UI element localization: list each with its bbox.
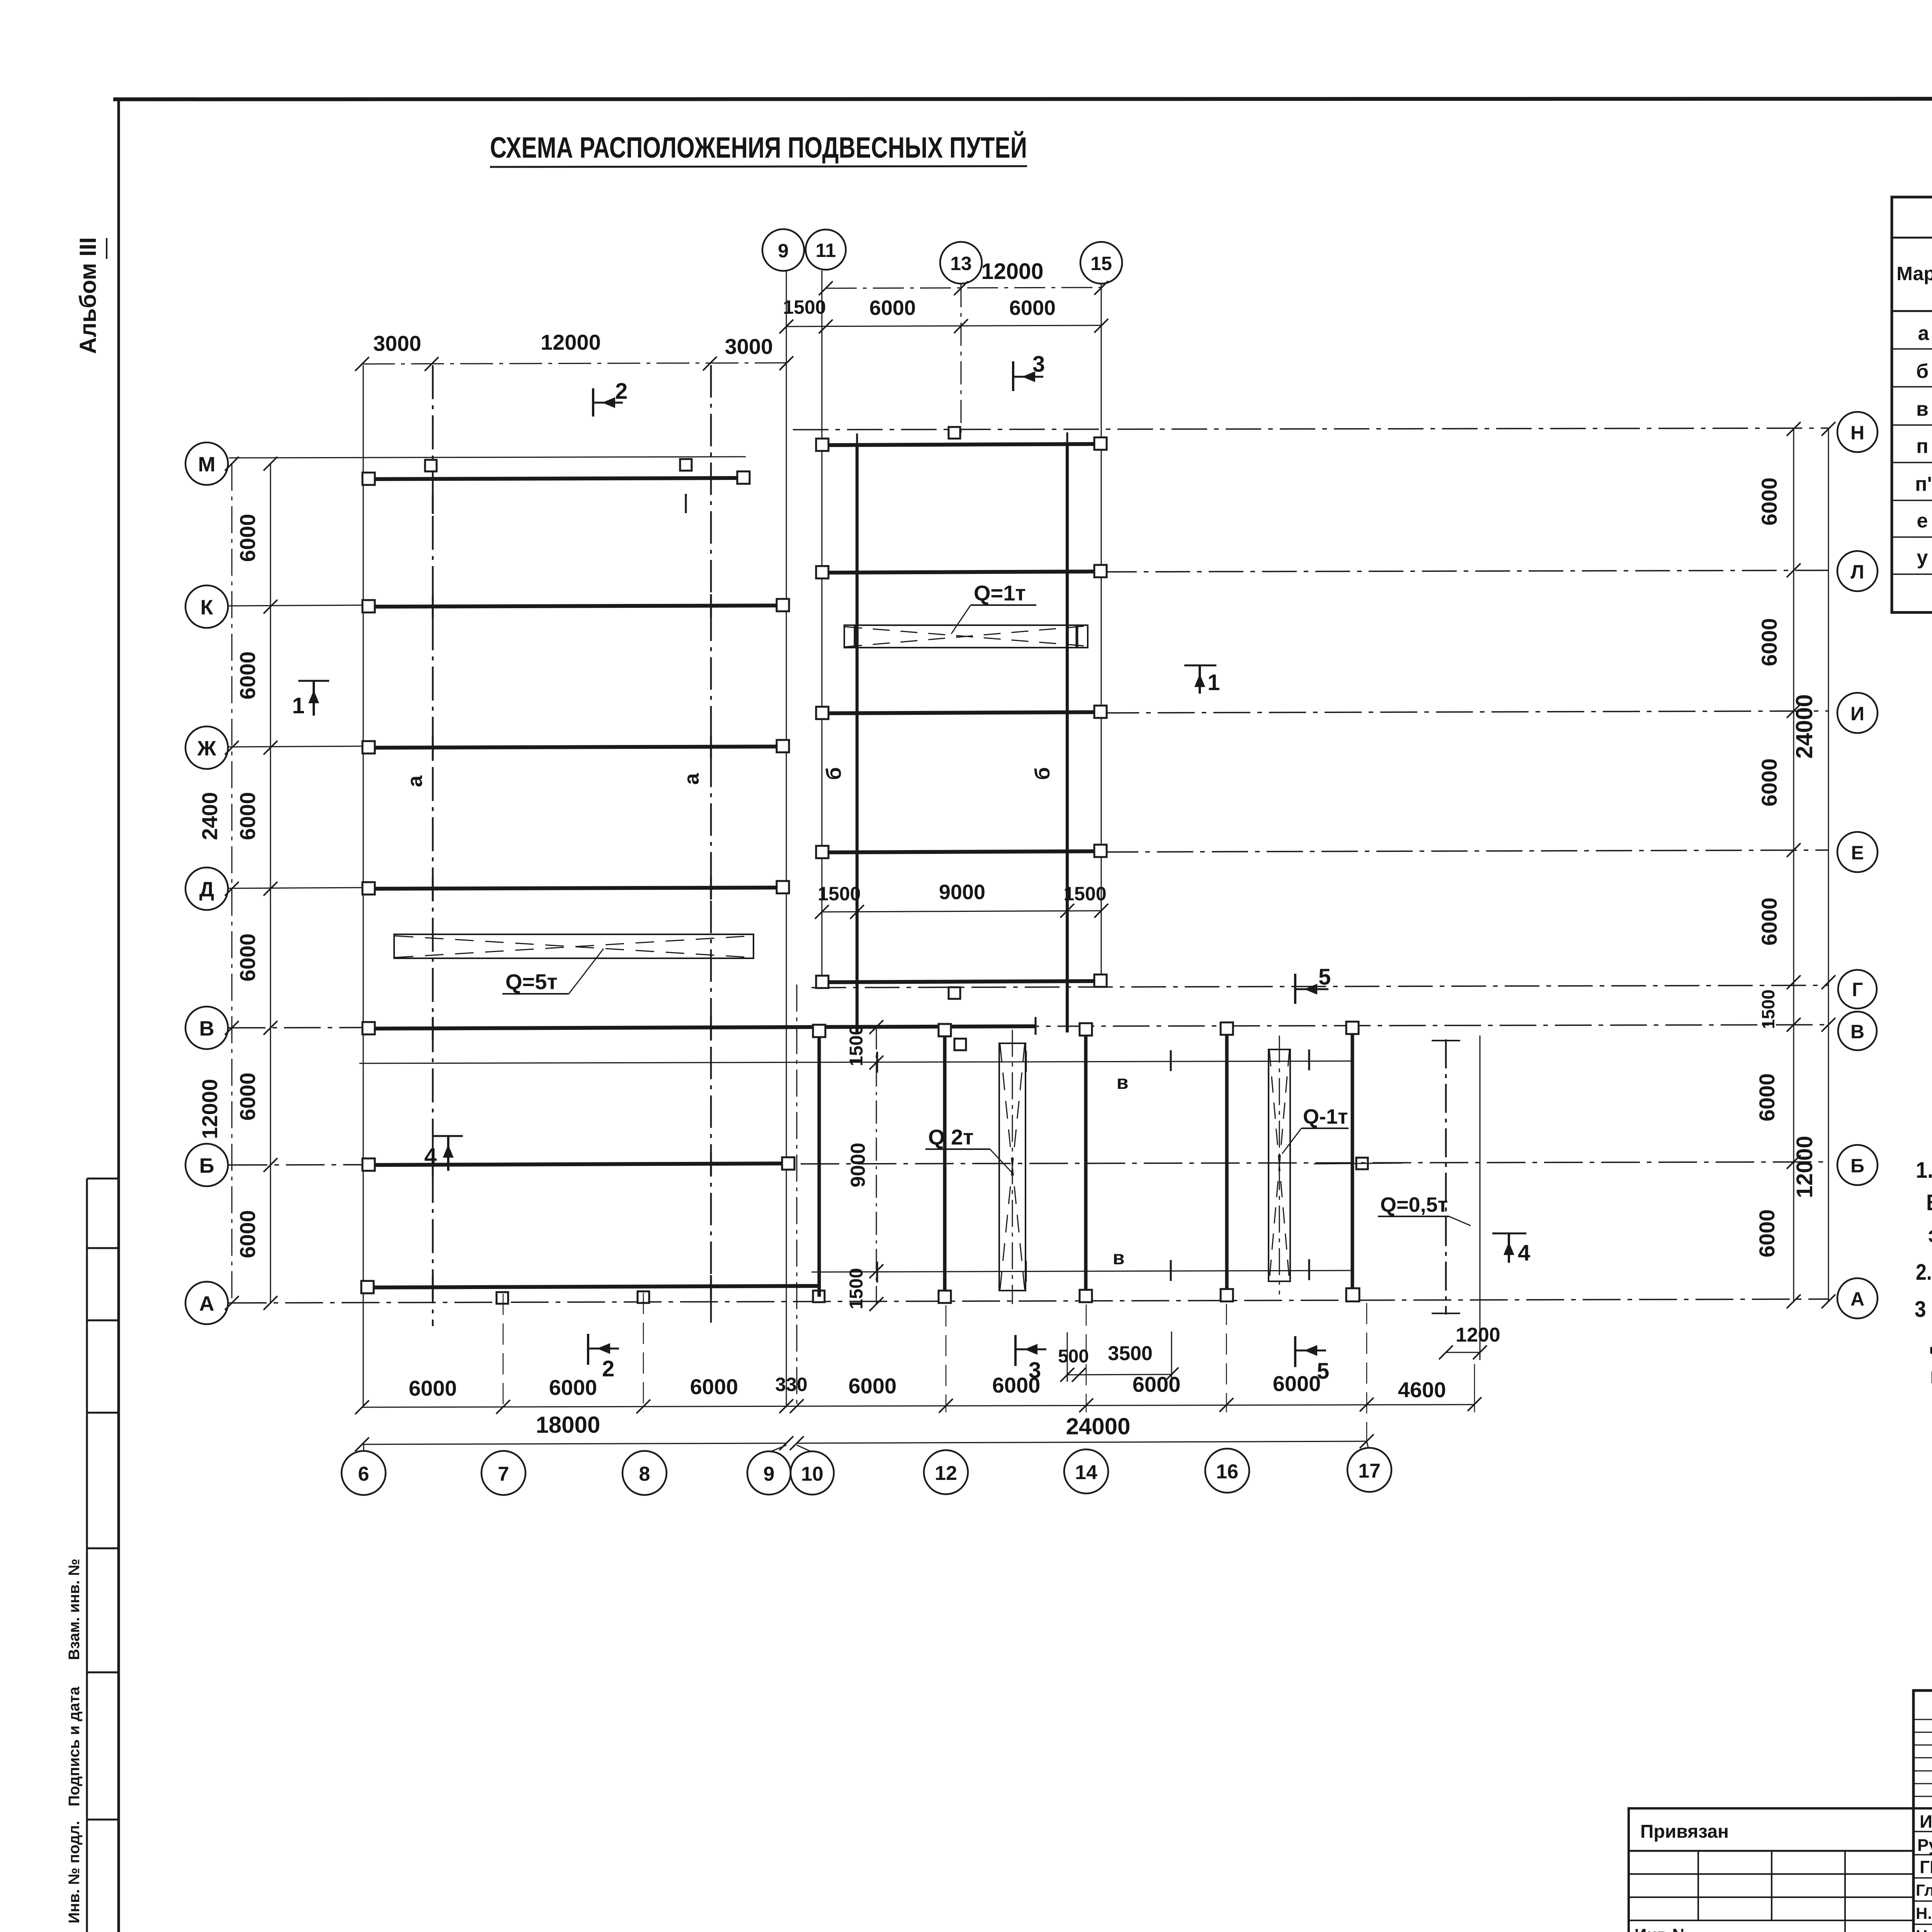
flag 1 right <box>1184 665 1216 694</box>
svg-text:3: 3 <box>1032 352 1045 377</box>
svg-text:4: 4 <box>424 1144 437 1169</box>
svg-text:п: п <box>1916 435 1928 457</box>
svg-text:СХЕМА РАСПОЛОЖЕНИЯ ПОДВЕСНЫХ П: СХЕМА РАСПОЛОЖЕНИЯ ПОДВЕСНЫХ ПУТЕЙ <box>490 131 1027 164</box>
svg-text:3000: 3000 <box>725 334 773 359</box>
flag 3 top <box>1013 361 1043 391</box>
svg-text:элементов - сталь марки Вст3: элементов - сталь марки Вст3кп2 по ГОСТ … <box>1928 1222 1932 1247</box>
svg-text:3000: 3000 <box>373 331 422 355</box>
crane Q=5т <box>394 934 753 994</box>
svg-text:в: в <box>1916 398 1929 420</box>
circle К <box>185 585 228 628</box>
table outer box <box>1892 197 1932 612</box>
rail в lower <box>811 1270 1352 1272</box>
svg-text:6000: 6000 <box>1757 759 1781 807</box>
svg-text:18000: 18000 <box>536 1412 600 1438</box>
svg-text:17: 17 <box>1358 1460 1381 1482</box>
svg-text:б: б <box>1031 767 1054 780</box>
svg-text:а: а <box>403 775 427 787</box>
flag 3 bottom <box>1015 1335 1046 1366</box>
flag 5 bottom <box>1295 1336 1326 1367</box>
svg-text:в: в <box>1113 1247 1125 1269</box>
svg-text:1: 1 <box>292 693 304 718</box>
svg-text:Инж.: Инж. <box>1920 1811 1932 1832</box>
axis Б long dash-dot <box>229 1162 1828 1165</box>
small rows top-left of stamp <box>1913 1719 1932 1720</box>
grid 11 line <box>821 270 823 988</box>
circle Д <box>185 867 228 910</box>
beam row М <box>369 478 744 479</box>
svg-text:Инв. № подл.: Инв. № подл. <box>66 1821 83 1923</box>
axis К stub <box>229 605 368 606</box>
svg-text:8: 8 <box>639 1463 650 1485</box>
svg-text:Н: Н <box>1850 422 1864 444</box>
staff rows <box>1913 1831 1932 1832</box>
svg-text:Л: Л <box>1850 561 1864 583</box>
svg-text:12000: 12000 <box>981 259 1043 284</box>
svg-text:М: М <box>198 453 216 476</box>
svg-text:6000: 6000 <box>869 296 916 320</box>
sheet left frame <box>117 98 120 1932</box>
svg-text:11: 11 <box>816 240 836 261</box>
svg-text:6000: 6000 <box>1757 898 1781 946</box>
grid 10 dash-dot <box>796 985 798 1407</box>
rail а1 dash-dot <box>432 365 434 1326</box>
svg-text:6000: 6000 <box>235 1210 260 1259</box>
svg-text:500: 500 <box>1058 1346 1089 1367</box>
rail cross ticks top building <box>857 432 1067 994</box>
rail а2 dash-dot <box>710 365 712 1326</box>
svg-text:ГИП: ГИП <box>1920 1857 1932 1877</box>
svg-text:6: 6 <box>358 1463 369 1485</box>
svg-text:Ж: Ж <box>197 737 217 760</box>
hanger squares bottom building <box>813 1022 1359 1303</box>
в beams vertical <box>819 1034 1352 1297</box>
svg-text:Б: Б <box>199 1154 214 1177</box>
svg-text:Гл.конст.: Гл.конст. <box>1916 1881 1932 1899</box>
axis Н dash-dot <box>793 428 1828 430</box>
dim 1200 monorail <box>1446 1036 1480 1360</box>
circle Ж <box>185 726 228 769</box>
svg-text:6000: 6000 <box>549 1375 597 1400</box>
circle А left <box>185 1282 228 1324</box>
flag 2 top <box>593 388 623 417</box>
beam row А <box>367 1286 819 1287</box>
svg-text:2. Сварку производить электр: 2. Сварку производить электродами Э42 по… <box>1916 1260 1932 1285</box>
svg-text:3500: 3500 <box>1108 1342 1153 1365</box>
left dim labels 6000 <box>197 514 260 1259</box>
svg-text:12000: 12000 <box>541 330 601 354</box>
flag 4 left <box>434 1136 463 1171</box>
svg-text:Е: Е <box>1851 842 1864 864</box>
svg-text:Q=1т: Q=1т <box>974 581 1026 605</box>
svg-text:п': п' <box>1915 473 1932 495</box>
beam row Ж <box>369 747 782 748</box>
grid 15 line <box>1101 284 1102 988</box>
svg-text:6000: 6000 <box>849 1374 897 1398</box>
svg-text:1500: 1500 <box>846 1025 867 1066</box>
svg-text:6000: 6000 <box>992 1373 1041 1397</box>
axis М line <box>229 457 746 458</box>
svg-text:Альбом III: Альбом III <box>75 237 101 354</box>
hanger squares top building <box>816 427 1107 999</box>
rail в upper <box>359 1061 1352 1063</box>
axis Г dash-dot <box>811 985 1828 988</box>
svg-text:А: А <box>1850 1288 1864 1310</box>
dim extension stubs <box>503 1293 1475 1450</box>
svg-text:24000: 24000 <box>1066 1413 1131 1439</box>
svg-text:9: 9 <box>764 1463 775 1485</box>
beam row Б <box>369 1163 788 1165</box>
svg-text:6000: 6000 <box>1755 1209 1779 1258</box>
title underline <box>490 166 1027 167</box>
dim line 1500/6000/6000 <box>786 325 1101 327</box>
svg-text:Д: Д <box>199 878 214 901</box>
main stamp box <box>1913 1690 1932 1932</box>
axis Е dash-dot <box>1102 850 1828 852</box>
circle М <box>185 442 228 485</box>
axis Ж stub <box>229 746 368 747</box>
axis Л dash-dot <box>1102 570 1828 572</box>
svg-text:Взам. инв. №: Взам. инв. № <box>66 1559 83 1660</box>
axis Д stub <box>229 888 368 888</box>
svg-text:В: В <box>199 1017 214 1040</box>
attach block <box>1629 1808 1913 1932</box>
svg-text:14: 14 <box>1075 1461 1097 1484</box>
svg-text:в: в <box>1117 1071 1129 1093</box>
svg-text:К: К <box>201 596 214 619</box>
svg-text:2400: 2400 <box>197 792 222 840</box>
svg-text:И: И <box>1850 703 1864 724</box>
svg-text:1: 1 <box>1207 670 1220 695</box>
svg-text:Марка: Марка <box>1896 263 1932 284</box>
svg-text:1200: 1200 <box>1456 1324 1500 1346</box>
svg-text:6000: 6000 <box>235 934 260 982</box>
svg-text:6000: 6000 <box>1755 1073 1779 1122</box>
svg-text:15: 15 <box>1090 253 1112 274</box>
svg-text:а: а <box>680 773 703 785</box>
svg-text:13: 13 <box>950 253 972 274</box>
svg-text:е: е <box>1917 510 1928 532</box>
svg-text:6000: 6000 <box>409 1376 457 1400</box>
svg-text:10: 10 <box>801 1463 823 1485</box>
svg-text:6000: 6000 <box>1133 1372 1181 1396</box>
svg-text:двумя слоями лака ПФ-170 п: двумя слоями лака ПФ-170 по ГОСТ 15907-7… <box>1930 1329 1932 1354</box>
dim line 3000/12000/3000 <box>362 363 786 364</box>
svg-text:5: 5 <box>1318 964 1331 990</box>
table header bottom line <box>1892 310 1932 311</box>
svg-text:12000: 12000 <box>197 1079 222 1139</box>
circle 9 top <box>762 229 804 271</box>
bottom building dim chain 1500/9000/1500 vertical <box>876 1026 877 1304</box>
bracket beam right <box>1314 1158 1403 1169</box>
table row lines <box>1892 348 1932 349</box>
svg-text:1500: 1500 <box>818 883 861 905</box>
circle 13 top <box>940 242 982 284</box>
svg-text:1500: 1500 <box>783 296 826 318</box>
grid 9 line <box>786 270 787 1407</box>
axis В long dash-dot <box>229 1025 1828 1028</box>
svg-text:24000: 24000 <box>1791 694 1817 759</box>
svg-text:Q-1т: Q-1т <box>1303 1105 1348 1128</box>
svg-text:4: 4 <box>1518 1240 1530 1265</box>
circle В left <box>185 1007 228 1049</box>
svg-text:Инв.№: Инв.№ <box>1634 1925 1691 1932</box>
svg-text:6000: 6000 <box>235 792 260 840</box>
svg-text:б: б <box>822 767 845 780</box>
grid 13 dash-dot <box>961 284 962 439</box>
svg-text:1500: 1500 <box>1063 883 1106 905</box>
svg-text:6000: 6000 <box>1009 296 1056 320</box>
beam row И <box>823 712 1101 713</box>
beam row К <box>369 605 782 607</box>
svg-text:2: 2 <box>615 379 628 404</box>
svg-text:б: б <box>1916 360 1929 383</box>
beam В end tick <box>1035 1017 1037 1035</box>
svg-text:Б: Б <box>1850 1155 1864 1177</box>
beam row Д <box>369 888 782 889</box>
svg-text:у: у <box>1917 546 1928 569</box>
svg-text:16: 16 <box>1216 1461 1238 1483</box>
svg-text:6000: 6000 <box>1757 618 1781 667</box>
crane Q-1т vertical <box>1269 1036 1349 1294</box>
svg-text:6000: 6000 <box>1273 1371 1321 1396</box>
svg-text:9000: 9000 <box>847 1143 869 1187</box>
svg-text:Подпись и дата: Подпись и дата <box>66 1686 83 1806</box>
svg-text:Рук.гр: Рук.гр <box>1917 1836 1932 1855</box>
rail б2 <box>1066 444 1069 1032</box>
flag 5 top <box>1295 974 1328 1004</box>
dim row 6000s <box>362 1405 1475 1407</box>
beam row Н <box>823 444 1101 445</box>
top building dim row 1500/9000/1500 <box>822 861 1101 919</box>
svg-text:1. Материал конструкций для: 1. Материал конструкций для балок, путей… <box>1916 1158 1932 1183</box>
circle Б left <box>185 1144 228 1186</box>
rail cross ticks on beams <box>433 494 711 1299</box>
grid 6 line <box>363 365 364 1407</box>
svg-text:Г: Г <box>1852 979 1863 1000</box>
table header row line <box>1892 237 1932 238</box>
crane Q=1т <box>844 605 1088 648</box>
svg-text:Q=0,5т: Q=0,5т <box>1380 1193 1448 1216</box>
svg-text:9: 9 <box>778 240 789 262</box>
svg-text:12000: 12000 <box>1792 1136 1817 1198</box>
flag 2 bottom <box>588 1334 619 1365</box>
beam row Е <box>823 851 1101 852</box>
sub dim 500 3500 <box>1067 1332 1172 1382</box>
svg-text:Вст3Гпс5 по ГОСТ 380-71* ,: Вст3Гпс5 по ГОСТ 380-71* , для связей и … <box>1926 1190 1932 1215</box>
crane Q=2т vertical <box>925 1030 1026 1304</box>
flag 4 right <box>1492 1233 1526 1263</box>
svg-text:330: 330 <box>775 1374 807 1395</box>
svg-text:4600: 4600 <box>1398 1378 1446 1402</box>
svg-text:1500: 1500 <box>846 1268 867 1310</box>
svg-text:В: В <box>1850 1021 1864 1043</box>
svg-text:9000: 9000 <box>939 881 985 904</box>
svg-text:грунтовке ПФ-020, ГОСТ 1818: грунтовке ПФ-020, ГОСТ 18186-79 <box>1930 1363 1932 1388</box>
svg-text:6000: 6000 <box>235 514 260 562</box>
circle 15 top <box>1080 242 1122 284</box>
svg-text:6000: 6000 <box>235 651 260 700</box>
monorail Q=0,5т <box>1378 1039 1471 1315</box>
left stamp column dividers <box>87 1178 119 1180</box>
svg-text:2: 2 <box>602 1356 614 1381</box>
beam row В <box>369 1026 1036 1029</box>
svg-text:Нач отд.: Нач отд. <box>1916 1927 1932 1932</box>
dim line 12000 top <box>826 287 1101 288</box>
axis И dash-dot <box>1102 711 1828 713</box>
svg-text:6000: 6000 <box>690 1374 738 1399</box>
svg-text:3 Все стальные конструкции: 3 Все стальные конструкции после монтажа… <box>1915 1297 1932 1322</box>
left stamp column line <box>86 1179 88 1932</box>
svg-text:12: 12 <box>935 1462 957 1485</box>
svg-text:Н.контр.: Н.контр. <box>1916 1904 1932 1922</box>
svg-text:1500: 1500 <box>1758 990 1778 1029</box>
hanger squares left building <box>361 459 966 1304</box>
main row across <box>1913 1807 1932 1810</box>
rail б1 <box>855 444 859 1032</box>
svg-text:6000: 6000 <box>235 1073 260 1121</box>
rail cross ticks bottom building <box>877 1049 1309 1282</box>
sheet top border <box>113 99 1932 99</box>
circle 11 top <box>806 230 846 270</box>
svg-text:Q 2т: Q 2т <box>928 1125 974 1149</box>
svg-text:А: А <box>199 1292 214 1315</box>
svg-text:Привязан: Привязан <box>1640 1821 1729 1842</box>
axis А long dash-dot <box>229 1299 1828 1303</box>
svg-text:Q=5т: Q=5т <box>505 969 558 994</box>
dim row 18000 / 24000 <box>362 1441 1367 1444</box>
beam row Л <box>823 571 1101 573</box>
svg-text:7: 7 <box>498 1463 509 1485</box>
svg-text:6000: 6000 <box>1757 478 1781 526</box>
svg-text:а: а <box>1918 322 1930 345</box>
flag 1 left <box>298 681 329 716</box>
beam row Г <box>823 981 1101 982</box>
